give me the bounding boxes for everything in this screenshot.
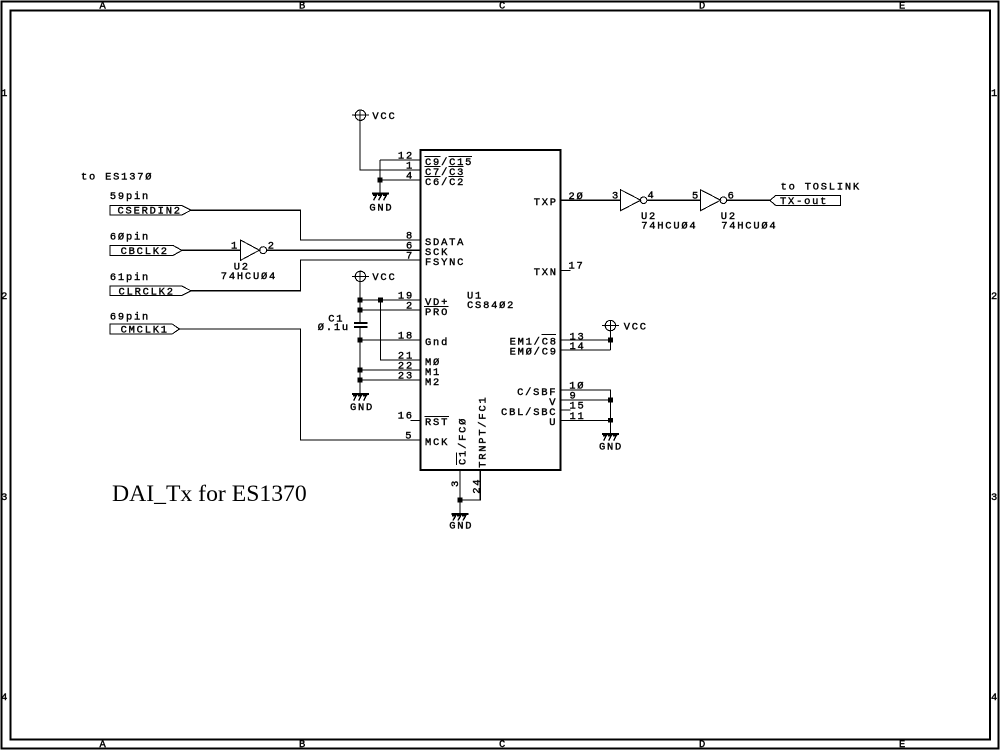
svg-text:16: 16	[398, 410, 414, 422]
vcc symbol VCC2	[352, 271, 369, 281]
svg-text:B: B	[299, 1, 307, 13]
junction C1/pin19	[358, 298, 363, 303]
svg-text:C: C	[499, 1, 507, 13]
junction pin9	[608, 398, 613, 403]
svg-text:7: 7	[406, 250, 414, 262]
svg-text:C1/FCØ: C1/FCØ	[457, 417, 469, 465]
svg-text:CBCLK2: CBCLK2	[121, 246, 169, 258]
svg-text:D: D	[699, 1, 707, 13]
vcc symbol VCC3	[602, 320, 619, 330]
svg-text:59pin: 59pin	[110, 191, 150, 203]
svg-text:E: E	[899, 739, 907, 750]
svg-text:DAI_Tx for ES1370: DAI_Tx for ES1370	[112, 481, 307, 507]
wire VCC2 rail down to GND2	[359, 271, 361, 393]
svg-text:VCC: VCC	[372, 272, 396, 284]
ground GND3	[602, 433, 619, 441]
wire U1 pin 22	[360, 369, 421, 371]
svg-text:11: 11	[570, 411, 586, 423]
wire U1 pin 19	[360, 299, 421, 301]
svg-text:3: 3	[991, 492, 999, 504]
svg-text:GND: GND	[599, 442, 623, 454]
svg-text:3: 3	[1, 492, 9, 504]
svg-text:5: 5	[692, 190, 700, 202]
svg-text:to ES137Ø: to ES137Ø	[81, 172, 153, 184]
svg-text:to TOSLINK: to TOSLINK	[781, 181, 861, 193]
connector CMCLK1	[110, 324, 180, 334]
svg-text:2: 2	[1, 291, 9, 303]
wire U1 pin 14	[561, 349, 611, 351]
inverter U2a triangle	[240, 240, 259, 260]
svg-text:4: 4	[406, 170, 414, 182]
svg-text:A: A	[99, 739, 107, 750]
U1 pin 1 label C7/C3	[425, 166, 466, 179]
svg-text:1: 1	[231, 241, 239, 253]
svg-text:4: 4	[991, 692, 999, 704]
wire CLRCLK2 to U1 pin 7 FSYNC	[191, 260, 421, 291]
wire VCC1 to pin1	[360, 110, 421, 170]
wire U1 pin 4	[380, 179, 421, 181]
wire U1 pin 23	[360, 379, 421, 381]
junction pin18	[358, 338, 363, 343]
svg-text:69pin: 69pin	[110, 312, 150, 324]
svg-text:C6/C2: C6/C2	[425, 177, 465, 189]
svg-text:MCK: MCK	[425, 437, 449, 449]
svg-text:3: 3	[612, 191, 620, 203]
svg-text:RST: RST	[425, 417, 449, 429]
wire U2c output to TX-out	[727, 199, 770, 201]
wire U1 pin 15 stub	[561, 409, 571, 411]
svg-text:CSERDIN2: CSERDIN2	[118, 206, 182, 218]
connector CLRCLK2	[110, 286, 191, 296]
svg-text:Ø.1u: Ø.1u	[318, 322, 350, 334]
svg-text:74HCUØ4: 74HCUØ4	[221, 271, 277, 283]
svg-text:CLRCLK2: CLRCLK2	[119, 286, 175, 298]
connector CSERDIN2	[110, 205, 191, 215]
svg-text:GND: GND	[449, 521, 473, 533]
svg-text:CMCLK1: CMCLK1	[121, 325, 169, 337]
ground GND1	[372, 193, 389, 201]
wire pin12 node to GND1	[379, 160, 381, 193]
svg-text:3: 3	[450, 479, 462, 487]
wire CSERDIN2 to U1 pin 8 SDATA	[191, 210, 421, 240]
wire branch to U1 pin 21 M0	[381, 300, 421, 360]
connector CBCLK2	[110, 246, 182, 256]
inverter U2a bubble	[260, 247, 267, 254]
svg-text:E: E	[899, 1, 907, 13]
svg-text:74HCUØ4: 74HCUØ4	[721, 221, 777, 233]
wire U1 pin 16 RST stub	[411, 419, 421, 421]
wire U1 pin 13	[561, 339, 611, 341]
IC U1 CS8402 body	[421, 150, 561, 470]
svg-text:EMØ/C9: EMØ/C9	[510, 346, 558, 358]
svg-text:TX-out: TX-out	[780, 196, 828, 208]
svg-text:M2: M2	[425, 377, 441, 389]
wire U1 pin 9	[561, 399, 611, 401]
svg-text:2: 2	[991, 291, 999, 303]
ground GND4	[451, 513, 468, 521]
U1 pin 16 label RST	[425, 416, 450, 429]
inverter U2b bubble	[640, 197, 647, 204]
svg-text:Gnd: Gnd	[425, 337, 449, 349]
svg-text:1: 1	[1, 88, 9, 100]
svg-text:24: 24	[471, 478, 483, 494]
wire VCC3 down to pin 14	[610, 320, 612, 350]
svg-text:CS84Ø2: CS84Ø2	[467, 300, 515, 312]
inverter U2c triangle	[701, 190, 721, 211]
svg-text:17: 17	[569, 261, 585, 273]
wire U1 pin 11	[561, 419, 611, 421]
svg-text:D: D	[699, 739, 707, 750]
inverter U2b triangle	[621, 190, 641, 211]
wire U1 pin 18	[360, 339, 421, 341]
wire U1 pin 10 to GND3 rail	[561, 390, 611, 433]
U1 pin 3 label C1/FC0	[457, 417, 470, 465]
svg-text:TXP: TXP	[534, 197, 558, 209]
svg-text:B: B	[299, 739, 307, 750]
svg-text:C: C	[499, 739, 507, 750]
wire CBCLK2 to inverter U2a input	[182, 249, 240, 251]
svg-text:6Øpin: 6Øpin	[110, 231, 150, 243]
wire U1 pin 12	[380, 159, 421, 161]
svg-text:FSYNC: FSYNC	[425, 257, 465, 269]
svg-text:1: 1	[991, 88, 999, 100]
U1 pin 12 label C9/C15	[425, 156, 474, 169]
junction pin2	[358, 308, 363, 313]
U1 pin 2 label PRO	[424, 306, 449, 318]
svg-text:5: 5	[405, 430, 413, 442]
junction pin4/GND1	[378, 178, 383, 183]
junction pin22	[358, 368, 363, 373]
U1 pin 4 label C6/C2	[425, 176, 466, 189]
svg-text:TXN: TXN	[534, 267, 558, 279]
svg-text:2Ø: 2Ø	[569, 191, 585, 203]
junction pin23	[358, 378, 363, 383]
wire U1 pin 24	[460, 470, 480, 500]
wire U1 pin 20 TXP to U2b	[561, 199, 621, 201]
svg-text:PRO: PRO	[425, 307, 449, 319]
svg-text:18: 18	[398, 330, 414, 342]
svg-text:VCC: VCC	[372, 111, 396, 123]
svg-text:74HCUØ4: 74HCUØ4	[641, 221, 697, 233]
connector TX-out	[770, 196, 841, 206]
svg-text:U: U	[549, 417, 557, 429]
svg-text:14: 14	[570, 341, 586, 353]
svg-text:A: A	[99, 1, 107, 13]
svg-text:2: 2	[406, 300, 414, 312]
svg-text:61pin: 61pin	[110, 272, 150, 284]
wire U2a output to U1 pin 6 SCK	[267, 249, 421, 251]
inverter U2c bubble	[720, 197, 727, 204]
wire U2b output to U2c input	[647, 199, 701, 201]
wire CMCLK1 to U1 pin 5 MCK	[180, 329, 421, 440]
wire U1 pin 17 TXN stub	[561, 270, 571, 272]
wire U1 pin 3 stub to GND4	[459, 470, 461, 513]
junction M0 branch	[378, 298, 383, 303]
ground GND2	[352, 393, 369, 401]
svg-text:GND: GND	[369, 202, 393, 214]
svg-text:23: 23	[398, 370, 414, 382]
svg-text:TRNPT/FC1: TRNPT/FC1	[477, 395, 489, 467]
capacitor C1	[354, 322, 368, 328]
svg-text:GND: GND	[350, 402, 374, 414]
wire U1 pin 2	[360, 309, 421, 311]
vcc symbol VCC1	[352, 110, 369, 120]
junction pin11	[608, 418, 613, 423]
junction pin13	[608, 338, 613, 343]
U1 pin 13 label EM1/C8	[510, 334, 558, 348]
svg-text:4: 4	[1, 692, 9, 704]
junction pin3/pin24	[458, 498, 463, 503]
svg-text:VCC: VCC	[624, 321, 648, 333]
